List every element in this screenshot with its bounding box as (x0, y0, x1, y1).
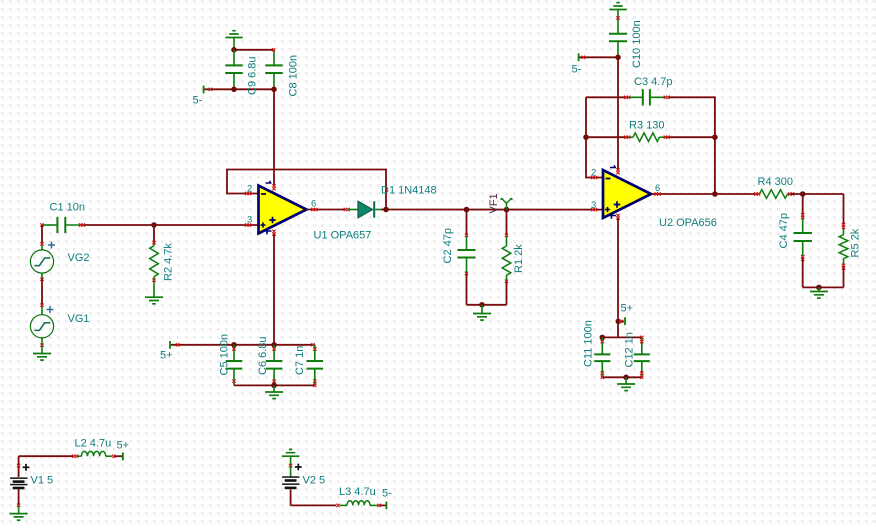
svg-text:C6 6.8u: C6 6.8u (257, 336, 269, 375)
svg-text:3: 3 (247, 215, 252, 226)
svg-text:VG1: VG1 (68, 313, 90, 325)
svg-text:C1 10n: C1 10n (50, 202, 85, 214)
svg-text:C7 1n: C7 1n (294, 346, 306, 375)
svg-text:L2 4.7u: L2 4.7u (75, 438, 112, 450)
svg-text:C4 47p: C4 47p (778, 213, 790, 248)
svg-text:VG2: VG2 (68, 252, 90, 264)
svg-text:5+: 5+ (160, 350, 173, 362)
svg-text:U2 OPA656: U2 OPA656 (659, 217, 717, 229)
svg-text:5+: 5+ (117, 440, 130, 452)
svg-text:R2 4.7k: R2 4.7k (163, 243, 175, 281)
svg-text:C10 100n: C10 100n (631, 20, 643, 68)
svg-text:R3 130: R3 130 (629, 120, 664, 132)
svg-text:C3 4.7p: C3 4.7p (634, 76, 673, 88)
svg-text:D1 1N4148: D1 1N4148 (381, 185, 437, 197)
svg-text:C9 6.8u: C9 6.8u (247, 56, 259, 95)
svg-text:5-: 5- (572, 64, 582, 76)
svg-text:R4 300: R4 300 (758, 176, 793, 188)
svg-text:2: 2 (247, 184, 252, 195)
svg-text:C5 100n: C5 100n (219, 334, 231, 376)
svg-text:C12 1n: C12 1n (624, 332, 636, 367)
svg-text:V2 5: V2 5 (303, 475, 326, 487)
svg-text:3: 3 (591, 200, 596, 211)
svg-text:5-: 5- (382, 488, 392, 500)
svg-text:C8 100n: C8 100n (288, 55, 300, 97)
svg-text:VF1: VF1 (488, 193, 500, 213)
svg-text:V1 5: V1 5 (31, 475, 54, 487)
svg-text:5+: 5+ (621, 303, 634, 315)
svg-text:U1 OPA657: U1 OPA657 (314, 230, 372, 242)
svg-text:C2 47p: C2 47p (442, 228, 454, 263)
svg-text:C11 100n: C11 100n (583, 320, 595, 367)
svg-text:5-: 5- (193, 95, 203, 107)
svg-text:R1 2k: R1 2k (513, 244, 525, 273)
svg-text:L3 4.7u: L3 4.7u (339, 486, 376, 498)
svg-text:R5 2k: R5 2k (850, 228, 862, 257)
svg-text:2: 2 (591, 168, 596, 179)
